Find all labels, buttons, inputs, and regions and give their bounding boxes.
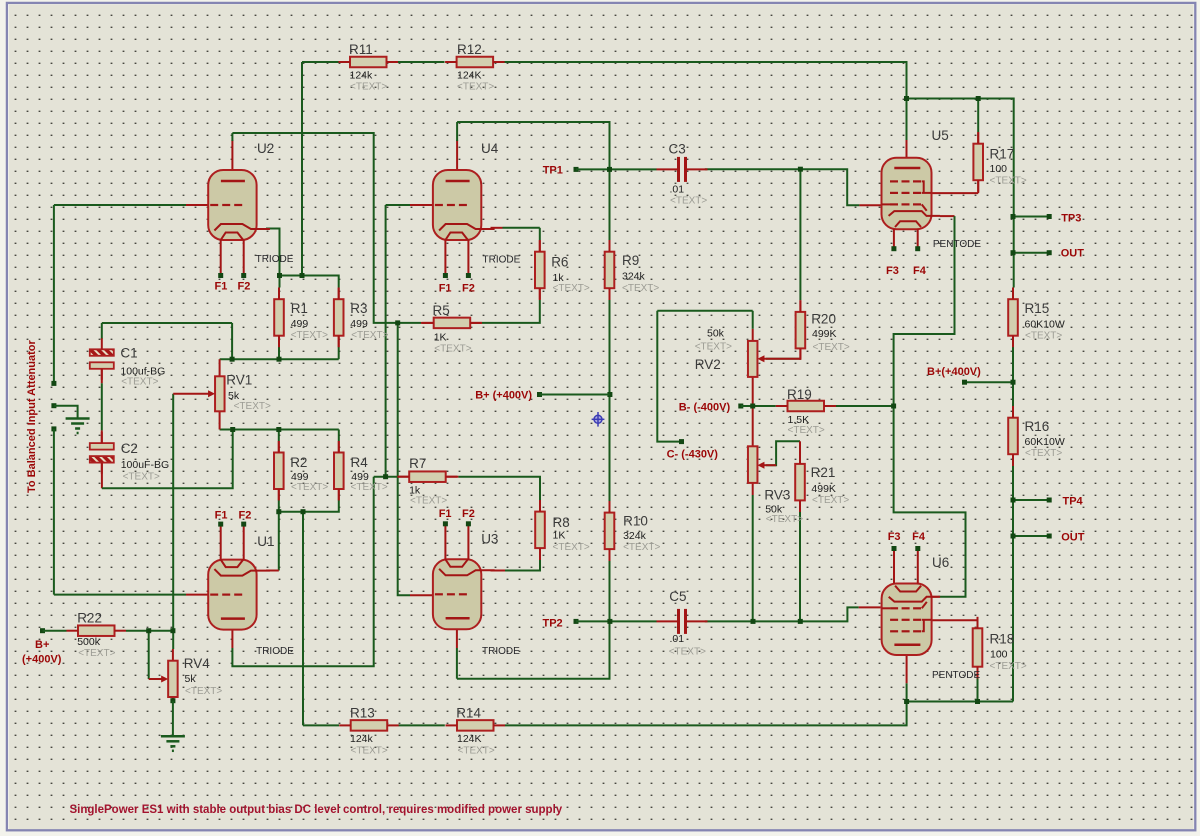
pin U5 screen — [932, 192, 979, 194]
junction C3 / R20 — [798, 167, 803, 172]
svg-text:124k: 124k — [350, 733, 374, 745]
pin R10 top — [609, 501, 611, 513]
svg-text:<TEXT>: <TEXT> — [458, 746, 495, 757]
wire U4 anode up — [456, 122, 458, 141]
resistor R11 — [339, 57, 399, 68]
svg-text:<TEXT>: <TEXT> — [434, 344, 471, 355]
pin R4 bottom — [338, 489, 340, 500]
pin R9 bottom — [609, 288, 611, 300]
svg-text:TP3: TP3 — [1061, 212, 1081, 224]
svg-text:RV1: RV1 — [226, 373, 252, 388]
wire RV2 top wire — [657, 310, 752, 312]
wire U2 anode node to U3 grid — [398, 323, 410, 595]
pin R9 top — [609, 240, 611, 252]
pin C2 bottom — [101, 464, 103, 489]
svg-text:<TEXT>: <TEXT> — [695, 342, 732, 353]
svg-text:60K10W: 60K10W — [1025, 436, 1065, 448]
wire R6 top wire — [539, 228, 541, 240]
svg-text:PENTODE: PENTODE — [933, 239, 981, 250]
pin R5 left — [421, 322, 434, 324]
pin U2 grid — [186, 204, 208, 206]
wire spine to U3 anode — [457, 621, 610, 678]
pin U2 anode — [231, 140, 233, 181]
svg-text:R9: R9 — [622, 253, 639, 268]
wire cathode rail upper — [280, 276, 339, 288]
svg-text:<TEXT>: <TEXT> — [553, 283, 590, 294]
svg-text:499K: 499K — [811, 483, 836, 495]
svg-text:.01: .01 — [670, 633, 685, 645]
wire R11 left down to U2 cathode node — [301, 62, 303, 276]
svg-text:R4: R4 — [351, 455, 369, 470]
vacuum tube U4 (triode) — [433, 170, 495, 276]
wire R7 to R8 — [458, 477, 540, 500]
svg-text:C1: C1 — [120, 346, 137, 361]
wire lower cathode rail — [279, 500, 339, 512]
pin RV4 top — [172, 649, 174, 661]
svg-text:R11: R11 — [349, 42, 373, 57]
junction TP1 node — [607, 167, 612, 172]
svg-text:<TEXT>: <TEXT> — [78, 648, 115, 659]
svg-text:<TEXT>: <TEXT> — [553, 542, 590, 553]
junction U3 pin F2 — [466, 521, 471, 526]
wire U2 cathode down — [266, 229, 280, 288]
junction OUT node upper — [1011, 250, 1016, 255]
svg-text:<TEXT>: <TEXT> — [670, 196, 707, 207]
pin R17 top — [977, 132, 979, 144]
pin RV3 bottom — [752, 483, 754, 495]
pin U1 anode — [231, 619, 233, 648]
svg-text:<TEXT>: <TEXT> — [813, 342, 850, 353]
junction RV1 wiper / RV4 — [170, 628, 175, 633]
pin R3 top — [338, 288, 340, 300]
junction OUT node lower — [1011, 534, 1016, 539]
pin U4 grid — [410, 204, 433, 206]
resistor R17 — [973, 132, 983, 192]
vacuum tube U5 (pentode) — [882, 158, 941, 249]
pin U1 grid — [186, 594, 208, 596]
wire U2 anode up — [231, 133, 233, 141]
pin R16 bottom — [1012, 454, 1014, 466]
svg-text:SinglePower ES1 with stable ou: SinglePower ES1 with stable output bias … — [70, 804, 563, 816]
wire RV3 drop — [752, 495, 754, 621]
svg-text:R14: R14 — [456, 705, 481, 720]
wire input wire lower — [53, 429, 55, 595]
ground input — [66, 419, 90, 434]
wire TP3 stub — [1013, 216, 1049, 218]
wire R8 to U3 cathode — [505, 560, 540, 571]
vacuum tube U1 (triode, mirrored) — [208, 524, 270, 630]
svg-text:(+400V): (+400V) — [22, 654, 62, 666]
svg-text:R3: R3 — [350, 301, 367, 316]
junction U4 pin F1 — [443, 273, 448, 278]
svg-text:F2: F2 — [462, 283, 475, 295]
svg-text:50k: 50k — [707, 328, 725, 340]
node TP1 terminal — [574, 167, 579, 172]
junction R18 bottom node — [975, 699, 980, 704]
wire TP1 to C3 — [576, 168, 657, 170]
pin U3 cathode — [491, 570, 506, 572]
svg-text:<TEXT>: <TEXT> — [1025, 448, 1062, 459]
pin U4 cathode — [491, 227, 503, 229]
wire U1 cathode riser — [278, 512, 280, 571]
svg-text:C- (-430V): C- (-430V) — [667, 449, 719, 461]
wire B+ to spine — [965, 381, 1014, 383]
wire input mid to ground — [54, 406, 78, 418]
junction U1 pin F1 — [218, 522, 223, 527]
wire RV1 bottom rail — [220, 429, 339, 431]
svg-text:324k: 324k — [622, 271, 646, 283]
wire RV4 to ground — [172, 701, 174, 736]
resistor R22 — [67, 625, 127, 636]
pin R20 bottom — [799, 348, 801, 358]
svg-text:B+: B+ — [35, 639, 49, 651]
pin R7 left — [397, 476, 409, 478]
wire R2 top stub — [278, 430, 280, 442]
wire right spine b — [1012, 347, 1014, 406]
wire to R11 left — [302, 61, 339, 63]
pin U5 anode — [906, 140, 908, 169]
wire C2 bottom wire — [102, 430, 233, 489]
node B+ (+400V) right terminal — [962, 380, 967, 385]
svg-text:R19: R19 — [787, 387, 812, 402]
pin R6 top — [539, 240, 541, 252]
wire R5 to R6 — [482, 300, 540, 323]
junction RV4 bottom node — [170, 698, 175, 703]
pin R7 right — [447, 476, 459, 478]
potentiometer RV4 — [149, 661, 178, 697]
resistor R9 — [605, 240, 615, 300]
node input A terminal — [51, 381, 56, 386]
svg-text:R16: R16 — [1025, 419, 1050, 434]
svg-text:<TEXT>: <TEXT> — [457, 82, 494, 93]
wire C1 branch drop — [231, 323, 233, 359]
potentiometer RV3 — [748, 446, 776, 483]
svg-text:<TEXT>: <TEXT> — [812, 495, 849, 506]
svg-text:R20: R20 — [811, 312, 836, 327]
wire R20 riser — [799, 169, 801, 300]
svg-text:R18: R18 — [990, 632, 1015, 647]
pin R6 bottom — [539, 288, 541, 300]
ground RV4 — [161, 736, 185, 751]
svg-text:F3: F3 — [888, 531, 901, 543]
resistor R8 — [535, 500, 545, 559]
svg-text:<TEXT>: <TEXT> — [185, 686, 222, 697]
wire U4 grid left — [386, 204, 410, 206]
resistor R3 — [334, 288, 344, 348]
svg-text:499: 499 — [350, 318, 368, 330]
pin U6 anode — [906, 645, 908, 684]
pin RV1 top — [219, 359, 221, 376]
junction B- / RV2 / RV3 — [750, 404, 755, 409]
svg-text:R5: R5 — [433, 303, 450, 318]
junction R13 riser — [301, 509, 306, 514]
svg-text:<TEXT>: <TEXT> — [766, 514, 803, 525]
pin R1 bottom — [278, 336, 280, 347]
junction R19 / cathode chain — [891, 404, 896, 409]
svg-text:RV3: RV3 — [764, 488, 790, 503]
pin R1 top — [278, 288, 280, 300]
svg-text:R2: R2 — [290, 455, 307, 470]
junction R1 bottom — [277, 357, 282, 362]
svg-text:<TEXT>: <TEXT> — [351, 746, 388, 757]
resistor R20 — [796, 300, 806, 360]
svg-text:.01: .01 — [670, 183, 685, 195]
wire R13-R14 — [399, 724, 445, 726]
wire center spine low — [609, 561, 611, 621]
svg-text:TP4: TP4 — [1063, 496, 1084, 508]
wire to R13 left — [303, 724, 339, 726]
svg-text:R10: R10 — [623, 514, 648, 529]
svg-text:500k: 500k — [77, 636, 101, 648]
pin R15 top — [1012, 288, 1014, 300]
svg-text:OUT: OUT — [1061, 248, 1085, 260]
pin R18 bottom — [977, 667, 979, 679]
svg-text:<TEXT>: <TEXT> — [351, 482, 388, 493]
svg-text:To Balanced Input Attenuator: To Balanced Input Attenuator — [26, 340, 38, 493]
resistor R4 — [334, 441, 344, 501]
wire R20 to RV2 wiper — [766, 358, 800, 360]
pin R2 top — [278, 441, 280, 453]
svg-text:<TEXT>: <TEXT> — [351, 330, 388, 341]
svg-text:124K: 124K — [457, 70, 482, 82]
pin RV2 bottom — [752, 377, 754, 406]
pin R20 top — [799, 300, 801, 312]
wire right spine a — [1013, 217, 1015, 288]
resistor R16 — [1008, 406, 1018, 466]
svg-text:F2: F2 — [238, 281, 251, 293]
wire U5 cathode to U6 cathode — [894, 216, 966, 597]
potentiometer RV1 — [173, 376, 224, 411]
wire R7 left wire — [374, 476, 398, 478]
wire RV3 wiper to R21 — [766, 441, 800, 465]
pin R4 top — [338, 441, 340, 453]
pin U3 grid — [410, 594, 433, 596]
pin U1 cathode — [266, 570, 279, 572]
wire U4 cathode to R6 top — [503, 227, 540, 229]
wire R4 top stub — [338, 430, 340, 442]
junction U6 anode node — [904, 699, 909, 704]
wire OUT stub upper — [1013, 252, 1049, 254]
wire R22 right rail — [126, 630, 173, 632]
svg-text:B+ (+400V): B+ (+400V) — [475, 390, 532, 402]
resistor R5 — [422, 318, 482, 329]
pin U5 grid — [859, 204, 881, 206]
wire top right rail — [907, 99, 1014, 217]
pin RV2 top — [752, 329, 754, 341]
junction U2 pin F2 — [241, 273, 246, 278]
svg-text:<TEXT>: <TEXT> — [410, 496, 447, 507]
wire R17 top wire — [977, 99, 979, 133]
svg-text:F1: F1 — [215, 510, 228, 522]
junction B+ node right — [1011, 380, 1016, 385]
junction U5 pin F3 — [891, 246, 896, 251]
svg-text:RV4: RV4 — [184, 656, 211, 671]
svg-text:U3: U3 — [481, 532, 498, 547]
pin R21 bottom — [799, 500, 801, 512]
vacuum tube U2 (triode) — [208, 170, 270, 276]
svg-text:<TEXT>: <TEXT> — [123, 472, 160, 483]
wire TP2 to C5 — [576, 620, 657, 622]
svg-text:<TEXT>: <TEXT> — [623, 542, 660, 553]
svg-text:124k: 124k — [350, 70, 374, 82]
svg-text:U1: U1 — [257, 534, 274, 549]
pin RV1 bottom — [219, 411, 221, 429]
origin marker — [592, 412, 605, 427]
resistor R18 — [973, 617, 983, 678]
resistor R2 — [274, 441, 284, 501]
pin U3 anode — [456, 618, 458, 648]
pin R10 bottom — [609, 549, 611, 561]
pin U6 screen — [932, 619, 978, 621]
junction R5 left / U3 grid — [395, 320, 400, 325]
svg-text:R8: R8 — [553, 515, 570, 530]
pin RV3 top — [752, 406, 754, 446]
pin R5 right — [470, 322, 482, 324]
wire output rail — [907, 701, 1013, 703]
resistor R14 — [446, 720, 506, 731]
wire C3 to U5 grid — [705, 169, 860, 205]
svg-text:1K: 1K — [553, 530, 566, 542]
svg-text:F1: F1 — [439, 283, 452, 295]
wire U4 anode to spine — [457, 122, 609, 240]
node C- (-430V) terminal — [679, 439, 684, 444]
wire U2 grid left — [54, 204, 186, 206]
node B+ (+400V) center terminal — [537, 392, 542, 397]
junction U5 pin F4 — [915, 246, 920, 251]
pin R8 top — [539, 500, 541, 512]
svg-text:PENTODE: PENTODE — [932, 670, 980, 681]
node OUT lower terminal — [1047, 534, 1052, 539]
pin R2 bottom — [278, 489, 280, 500]
junction U5 anode node — [904, 96, 909, 101]
svg-text:1K: 1K — [434, 332, 447, 344]
wire R11-R12 — [398, 61, 445, 63]
svg-text:RV2: RV2 — [695, 357, 721, 372]
svg-text:U2: U2 — [257, 141, 274, 156]
wire U1 grid left — [54, 594, 186, 596]
wire U3 anode drop — [456, 648, 458, 679]
capacitor C5 — [657, 609, 708, 634]
pin R18 top — [977, 622, 979, 629]
svg-text:F1: F1 — [215, 281, 228, 293]
pin R19 left — [776, 405, 788, 407]
svg-text:<TEXT>: <TEXT> — [622, 283, 659, 294]
wire RV1 wiper drop — [172, 394, 174, 649]
wire RV4 wiper riser — [148, 631, 150, 679]
junction U3 pin F1 — [443, 521, 448, 526]
svg-text:<TEXT>: <TEXT> — [291, 482, 328, 493]
svg-text:TRIODE: TRIODE — [483, 255, 521, 266]
svg-text:U4: U4 — [481, 141, 499, 156]
svg-text:<TEXT>: <TEXT> — [788, 425, 825, 436]
vacuum tube U3 (triode, mirrored) — [433, 524, 495, 630]
junction U6 pin F3 — [892, 546, 897, 551]
junction R21 bottom node — [798, 619, 803, 624]
junction R2 bottom / U1 cathode — [276, 509, 281, 514]
pin U5 cathode — [940, 215, 955, 217]
wire C1-C2 mid wire — [101, 383, 103, 430]
svg-text:TP2: TP2 — [543, 618, 563, 630]
resistor R21 — [795, 452, 805, 512]
capacitor C1 (polarized) — [90, 338, 114, 380]
svg-text:R22: R22 — [77, 611, 102, 626]
resistor R12 — [445, 57, 505, 68]
resistor R19 — [776, 401, 836, 412]
svg-text:R7: R7 — [409, 456, 426, 471]
wire B+ center wire — [540, 394, 610, 396]
pin R16 top — [1012, 406, 1014, 418]
junction R17 top node — [976, 96, 981, 101]
svg-text:F2: F2 — [462, 508, 475, 520]
wire U2 anode to R5 — [232, 133, 421, 323]
svg-text:B+(+400V): B+(+400V) — [927, 366, 981, 378]
junction U6 pin F4 — [915, 546, 920, 551]
pin R17 bottom — [977, 180, 979, 193]
pin C1-C2 link — [101, 368, 103, 383]
resistor R13 — [339, 720, 399, 731]
junction U4 pin F2 — [466, 273, 471, 278]
svg-text:R13: R13 — [350, 705, 375, 720]
junction U4 grid / R7 — [383, 474, 388, 479]
svg-text:C2: C2 — [121, 441, 138, 456]
resistor R10 — [605, 501, 615, 560]
svg-text:5k: 5k — [185, 673, 197, 685]
svg-text:<TEXT>: <TEXT> — [669, 647, 706, 658]
svg-text:499K: 499K — [812, 328, 837, 340]
wire R18 bottom stub — [977, 679, 979, 702]
svg-text:124K: 124K — [457, 733, 482, 745]
svg-text:R17: R17 — [990, 147, 1015, 162]
resistor R7 — [398, 471, 458, 482]
resistor R1 — [274, 288, 284, 348]
wire right spine c — [1012, 466, 1014, 702]
svg-text:F1: F1 — [439, 508, 452, 520]
node OUT upper terminal — [1047, 250, 1052, 255]
svg-text:F3: F3 — [886, 265, 899, 277]
wire R13 left riser — [302, 512, 304, 726]
node TP3 terminal — [1047, 214, 1052, 219]
node TP4 terminal — [1047, 498, 1052, 503]
svg-text:100uF-BG: 100uF-BG — [121, 459, 169, 471]
pin RV4 bottom — [172, 697, 174, 701]
svg-text:<TEXT>: <TEXT> — [1025, 331, 1062, 342]
wire U5 anode riser — [906, 99, 908, 141]
wire C1 top riser — [101, 323, 103, 339]
junction U2 cathode / R11 — [300, 273, 305, 278]
wire R1 bottom stub — [278, 347, 280, 359]
junction TP2 node — [607, 619, 612, 624]
svg-text:100: 100 — [990, 163, 1008, 175]
node TP2 terminal — [574, 619, 579, 624]
potentiometer RV2 — [748, 341, 800, 377]
wire R3 bottom stub — [338, 347, 340, 359]
svg-text:R1: R1 — [291, 301, 308, 316]
wire R21 drop — [799, 512, 801, 621]
pin U4 anode — [456, 140, 458, 181]
svg-text:OUT: OUT — [1061, 532, 1085, 544]
svg-text:F4: F4 — [912, 531, 926, 543]
wire OUT stub lower — [1013, 535, 1049, 537]
capacitor C3 — [657, 157, 708, 182]
svg-text:499: 499 — [291, 318, 309, 330]
svg-text:100: 100 — [990, 649, 1008, 661]
svg-text:U6: U6 — [932, 555, 949, 570]
wire C5 to U6 grid — [705, 607, 859, 621]
wire R2 bottom stub — [278, 500, 280, 512]
svg-text:<TEXT>: <TEXT> — [291, 330, 328, 341]
pin U6 grid — [859, 606, 881, 608]
svg-text:F2: F2 — [239, 510, 252, 522]
